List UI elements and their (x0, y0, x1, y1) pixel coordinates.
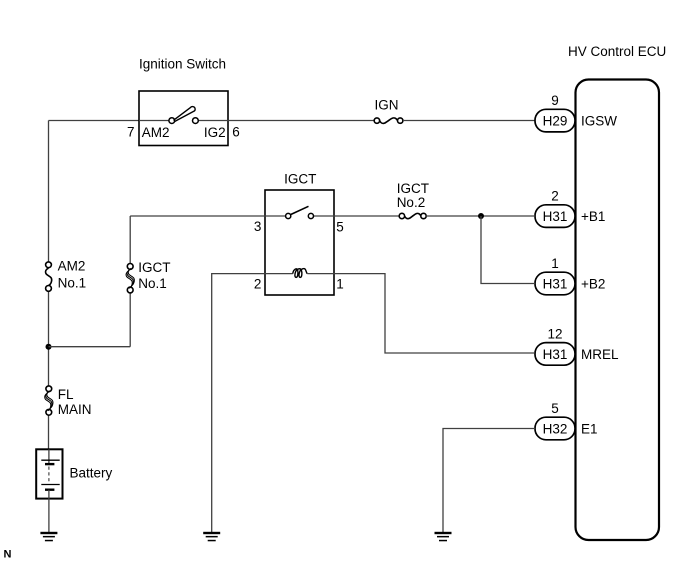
svg-text:12: 12 (547, 327, 562, 342)
wire: junction to IGCT No.1 fuse (49, 346, 131, 348)
battery internal dashed link (48, 467, 50, 483)
relay contact right circle (308, 213, 313, 218)
wire: inside ignition switch, pin 7 stub (139, 120, 169, 122)
svg-text:IGCT: IGCT (284, 171, 316, 186)
svg-text:2: 2 (551, 189, 559, 204)
svg-text:IGN: IGN (375, 98, 399, 113)
ignition switch contact AM2 (left circle) (169, 118, 175, 124)
wire: relay switch stub left (pin 3) (265, 215, 286, 217)
svg-text:5: 5 (551, 401, 559, 416)
svg-text:MAIN: MAIN (58, 402, 92, 417)
ignition switch SW box (139, 91, 228, 146)
wire: IGCT No.2 fuse to +B1 (426, 215, 535, 217)
relay coil wire right (307, 273, 334, 275)
ignition switch lever blade (174, 107, 195, 122)
wire: battery to ground (48, 499, 50, 532)
fusible link IGCT No.1 symbol (126, 264, 134, 293)
svg-text:IGCT: IGCT (397, 181, 429, 196)
svg-text:H31: H31 (543, 209, 568, 224)
wire: relay pin 1 to MREL (334, 274, 534, 353)
connector pin H29 (IGSW) oval (535, 109, 575, 132)
fusible link FL MAIN symbol (45, 386, 53, 415)
wire: E1 to ground drop (443, 429, 535, 533)
svg-text:N: N (4, 549, 12, 561)
relay contact left circle (286, 213, 291, 218)
svg-text:7: 7 (127, 124, 135, 139)
connector pin H31 (+B2) oval (535, 272, 575, 295)
svg-text:Ignition Switch: Ignition Switch (139, 57, 226, 72)
svg-text:2: 2 (254, 276, 262, 291)
battery internal wire top (48, 449, 50, 463)
ground: battery ground (40, 532, 57, 542)
relay coil L1 (293, 269, 308, 278)
wire: relay pin 5 to IGCT No.2 fuse (334, 215, 399, 217)
wire: horizontal from bus to ignition switch pin 7 (49, 120, 140, 122)
battery plate negative (short thick) (45, 463, 54, 465)
connector pin H31 (MREL) oval (535, 343, 575, 366)
svg-text:6: 6 (232, 124, 240, 139)
svg-text:IGCT: IGCT (138, 260, 170, 275)
wire: from IGCT No.1 to relay pin 3 (130, 215, 265, 217)
battery BAT (36, 449, 62, 498)
svg-text:HV Control ECU: HV Control ECU (568, 44, 666, 59)
wire: battery positive vertical bus (node from ignition switch pin 7 down to battery) (48, 121, 50, 450)
wire: IGN fuse to H29 IGSW pin (403, 120, 535, 122)
wire: IGCT No.1 branch vertical (129, 216, 131, 347)
svg-text:H32: H32 (543, 421, 568, 436)
svg-text:FL: FL (58, 387, 74, 402)
svg-text:+B1: +B1 (581, 209, 605, 224)
svg-text:No.1: No.1 (138, 276, 167, 291)
svg-text:No.2: No.2 (397, 195, 426, 210)
relay IGCT box (265, 190, 334, 295)
svg-text:9: 9 (551, 93, 559, 108)
svg-text:1: 1 (336, 276, 344, 291)
ground: relay coil ground (203, 532, 220, 542)
battery plate positive 2 (long) (41, 484, 59, 486)
connector pin H32 (E1) oval (535, 417, 575, 440)
wire: ignition switch pin 6 to IGN fuse (228, 120, 374, 122)
fuse AM2 No.1 symbol (46, 262, 52, 291)
HV Control ECU box U1 (576, 80, 660, 541)
wire: relay switch stub right (pin 5) (314, 215, 335, 217)
node junction: +B1/+B2 branch (478, 213, 484, 219)
svg-text:5: 5 (336, 219, 344, 234)
ground: E1 ground (435, 532, 452, 542)
node junction: bus to IGCT No.1 branch (46, 344, 52, 350)
svg-text:IGSW: IGSW (581, 114, 617, 129)
svg-text:H29: H29 (543, 114, 568, 129)
svg-text:Battery: Battery (70, 465, 113, 480)
fuse IGCT No.2 symbol (399, 213, 426, 218)
svg-text:+B2: +B2 (581, 276, 605, 291)
svg-text:H31: H31 (543, 347, 568, 362)
battery plate positive (long) (41, 459, 59, 461)
fuse IGN symbol (374, 118, 403, 124)
wire: inside ignition switch, pin 6 stub (199, 120, 229, 122)
svg-text:IG2: IG2 (204, 125, 226, 140)
wire: junction down to +B2 (481, 216, 535, 284)
wire: relay pin 2 to ground drop (212, 274, 265, 532)
svg-text:E1: E1 (581, 421, 598, 436)
relay switch lever (291, 206, 309, 214)
relay coil wire left (265, 273, 293, 275)
battery internal wire bottom (48, 490, 50, 499)
svg-text:AM2: AM2 (58, 258, 86, 273)
svg-text:MREL: MREL (581, 347, 619, 362)
svg-text:H31: H31 (543, 276, 568, 291)
battery plate negative 2 (short thick) (45, 489, 54, 491)
svg-text:No.1: No.1 (58, 275, 87, 290)
ignition switch contact IG2 (right circle) (193, 118, 199, 124)
svg-text:AM2: AM2 (142, 125, 170, 140)
connector pin H31 (+B1) oval (535, 205, 575, 228)
svg-text:3: 3 (254, 219, 262, 234)
svg-text:1: 1 (551, 256, 559, 271)
